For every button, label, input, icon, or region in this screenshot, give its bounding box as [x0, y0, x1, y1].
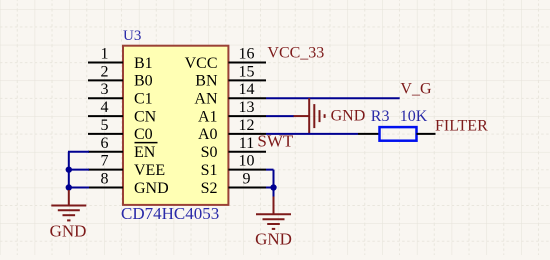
- pin 9 S2: [201, 171, 266, 197]
- power port GND bar 1: [308, 98, 310, 134]
- svg-text:CN: CN: [134, 108, 157, 125]
- pin 15 BN: [195, 63, 266, 89]
- pin 7 VEE: [88, 153, 165, 179]
- pin 6 EN (active low, overbar): [88, 135, 158, 161]
- resistor R3 body: [380, 127, 417, 141]
- resistor R3 left lead: [358, 133, 380, 135]
- svg-text:GND: GND: [134, 180, 169, 197]
- svg-text:C0: C0: [134, 126, 153, 143]
- svg-text:1: 1: [101, 46, 109, 63]
- ground symbol right bar 4: [272, 228, 275, 230]
- svg-text:U3: U3: [123, 28, 141, 44]
- wire pin 13 to GND power port: [266, 115, 294, 117]
- svg-text:VCC: VCC: [185, 55, 218, 72]
- svg-text:S1: S1: [201, 162, 218, 179]
- svg-text:4: 4: [101, 99, 109, 116]
- svg-text:6: 6: [101, 135, 109, 152]
- svg-text:13: 13: [239, 99, 255, 116]
- svg-text:AN: AN: [194, 91, 218, 108]
- ground symbol left bar 1: [51, 205, 86, 207]
- power port GND bar 3: [319, 110, 321, 122]
- svg-text:VCC_33: VCC_33: [267, 45, 324, 62]
- wire left vertical down to ground: [68, 152, 70, 190]
- wire pin 9 to right vertical: [266, 187, 274, 189]
- svg-text:12: 12: [239, 117, 255, 134]
- ground symbol left bar 2: [58, 209, 80, 211]
- svg-text:R3: R3: [371, 108, 390, 125]
- pin 3 C1: [88, 81, 153, 107]
- svg-text:GND: GND: [255, 230, 292, 249]
- svg-text:GND: GND: [331, 108, 366, 125]
- svg-text:15: 15: [239, 63, 255, 80]
- svg-text:V_G: V_G: [400, 80, 432, 97]
- svg-text:GND: GND: [50, 221, 87, 240]
- svg-text:9: 9: [243, 171, 251, 188]
- power port GND bar 4: [324, 114, 326, 118]
- svg-text:C1: C1: [134, 91, 153, 108]
- svg-text:8: 8: [101, 171, 109, 188]
- wire pin 10 to right vertical: [266, 169, 274, 171]
- pin 12 A0: [198, 117, 266, 143]
- ground symbol right bar 3: [267, 223, 280, 225]
- ground symbol left bar 4: [67, 219, 70, 221]
- svg-text:SWT: SWT: [257, 132, 294, 151]
- pin 14 AN: [194, 81, 266, 107]
- pin 2 B0: [88, 63, 153, 89]
- svg-text:5: 5: [101, 117, 109, 134]
- pin 8 GND: [88, 171, 169, 197]
- pin 1 B1: [88, 46, 153, 72]
- junction dot pin 7: [66, 166, 72, 172]
- wire pin 8 to left vertical: [68, 187, 89, 189]
- wire pin 7 to left vertical: [68, 169, 89, 171]
- ground symbol right bar 1: [256, 213, 291, 215]
- wire pin 12 to resistor R3: [266, 133, 358, 135]
- junction dot pin 8: [66, 184, 72, 190]
- svg-text:B0: B0: [134, 73, 153, 90]
- pin 13 A1: [198, 99, 266, 125]
- svg-text:11: 11: [239, 135, 254, 152]
- pin 11 S0: [201, 135, 266, 161]
- ground symbol right bar 2: [263, 218, 285, 220]
- ground symbol right: stem: [273, 197, 275, 215]
- junction dot pins 9/10: [270, 184, 276, 190]
- svg-text:VEE: VEE: [134, 162, 165, 179]
- wire pin 14 to V_G: [266, 97, 400, 99]
- power port GND (horizontal, on pin 13): stem: [294, 115, 310, 117]
- svg-text:CD74HC4053: CD74HC4053: [121, 204, 219, 223]
- ground symbol left bar 3: [63, 214, 76, 216]
- svg-text:14: 14: [239, 81, 255, 98]
- power port GND bar 2: [313, 104, 315, 128]
- svg-text:7: 7: [101, 153, 109, 170]
- component U3 body: CD74HC4053 IC rectangle: [123, 46, 228, 205]
- ground symbol left: stem: [68, 190, 70, 206]
- svg-text:A0: A0: [198, 126, 218, 143]
- svg-text:3: 3: [101, 81, 109, 98]
- svg-text:S0: S0: [201, 144, 218, 161]
- pin 16 VCC: [185, 46, 266, 72]
- resistor R3 right lead: [417, 133, 436, 135]
- pin 10 S1: [201, 153, 266, 179]
- svg-text:16: 16: [239, 46, 255, 63]
- wire right vertical down to ground: [273, 170, 275, 197]
- svg-text:EN: EN: [134, 144, 156, 161]
- pin 5 C0: [88, 117, 153, 143]
- svg-text:B1: B1: [134, 55, 153, 72]
- wire pin 6 to left vertical: [68, 151, 89, 153]
- svg-text:10K: 10K: [400, 108, 428, 125]
- svg-text:10: 10: [239, 153, 255, 170]
- svg-text:FILTER: FILTER: [435, 118, 488, 135]
- svg-text:BN: BN: [195, 73, 218, 90]
- svg-text:2: 2: [101, 63, 109, 80]
- svg-text:S2: S2: [201, 180, 218, 197]
- pin 4 CN: [88, 99, 157, 125]
- svg-text:A1: A1: [198, 108, 218, 125]
